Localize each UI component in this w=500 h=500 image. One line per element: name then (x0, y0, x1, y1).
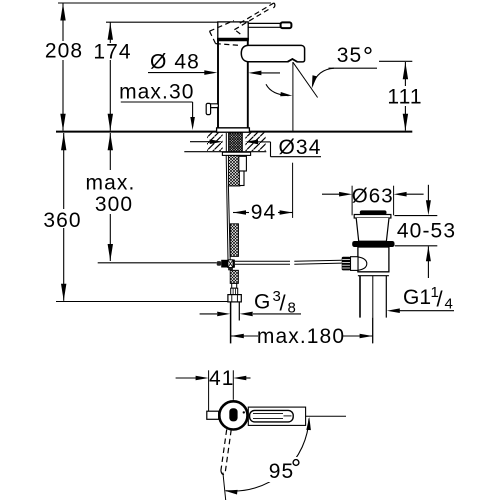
dimension 94 arrows (233, 210, 246, 215)
coupler lower bit (228, 268, 233, 271)
svg-text:174: 174 (93, 41, 131, 64)
dimension Ø63 arrows (322, 193, 340, 195)
G3/8 nut (228, 295, 241, 302)
stream axis vertical line (292, 62, 294, 131)
40-53 bottom ref line (395, 245, 438, 247)
svg-text:4: 4 (445, 296, 453, 313)
rod housing bulge (358, 257, 367, 270)
rod coupler (217, 261, 222, 266)
dimension Ø34 left (190, 141, 213, 143)
rod attachment block (351, 257, 359, 271)
reference line at G3/8 nut (360 bottom) (56, 301, 228, 303)
svg-text:300: 300 (95, 193, 133, 216)
countertop surface line (56, 131, 412, 133)
dimension Ø48 left arrow (204, 70, 217, 75)
swivel arc arrow (266, 84, 289, 95)
spout axis extension line (292, 163, 294, 218)
svg-text:41: 41 (209, 367, 235, 390)
dimension max.180 line (231, 335, 258, 337)
rod guide bracket (239, 156, 247, 171)
dimension Ø34 right (245, 140, 258, 145)
plan lever stub (207, 411, 219, 419)
drain seal ring (352, 241, 394, 247)
dimension 174 arrows (108, 23, 113, 40)
reference line lever top (174) (106, 21, 218, 23)
plan spout axis line (306, 415, 346, 417)
plan small dot (243, 411, 245, 413)
connection tube (230, 302, 232, 344)
svg-text:Ø 48: Ø 48 (150, 51, 200, 74)
pop-up rod knob on body (207, 104, 219, 108)
braided hose middle (230, 224, 238, 257)
svg-text:111: 111 (387, 86, 422, 109)
35deg leader underline (329, 67, 378, 69)
dimension 111 arrows (403, 62, 408, 79)
horizontal pop-up rod (235, 260, 290, 262)
40-53 top ref line (395, 215, 438, 217)
counter hatch right (245, 133, 265, 151)
40-53 arrows (426, 200, 431, 215)
svg-text:35: 35 (337, 44, 363, 67)
aerator notch (288, 59, 298, 62)
svg-text:Ø34: Ø34 (279, 136, 322, 159)
svg-text:max.180: max.180 (257, 325, 345, 348)
41 extension lines (208, 370, 210, 412)
spout (241, 45, 304, 62)
mounting washer (222, 152, 250, 155)
dimension 111 line (404, 62, 406, 86)
dimension max.300 line (109, 133, 111, 170)
svg-text:208: 208 (45, 40, 83, 63)
braided hose below coupler (230, 270, 238, 283)
svg-text:360: 360 (43, 209, 81, 232)
plan dashed lever (221, 430, 227, 471)
G1 1/4 leader (387, 308, 400, 313)
drain plug cap (360, 210, 387, 214)
35deg leader arrow (312, 75, 317, 88)
dimension Ø48 leader (148, 72, 210, 74)
water stream 35deg line (293, 62, 318, 97)
dimension 41 arrows (176, 377, 196, 379)
plan lever extension line (223, 473, 226, 500)
dimension 360 line (63, 133, 65, 209)
svg-text:94: 94 (251, 201, 277, 224)
faucet body circle (219, 401, 247, 429)
pop-up rod left line (226, 156, 228, 260)
leader max.30 (121, 101, 193, 103)
svg-text:max.: max. (86, 172, 136, 195)
35deg leader curve (313, 68, 334, 85)
lever handle (248, 22, 282, 24)
40-53 dim lines (427, 185, 429, 202)
dashed raised lever outline (210, 21, 234, 32)
G3/8 arrows (200, 313, 217, 315)
svg-text:max.30: max.30 (119, 81, 194, 104)
base flange (217, 128, 250, 132)
svg-text:/: / (280, 291, 287, 316)
max.180 right extension (372, 318, 374, 344)
pop-up rod in counter hole (225, 133, 227, 152)
drain shoulder lines (358, 271, 389, 273)
plan spout outer housing (248, 407, 305, 425)
dimension 174 line (109, 22, 111, 43)
drain tailpipe (359, 276, 361, 318)
reference line at pop-up rod (max.300 bottom) (98, 262, 217, 264)
pop-up rod right line (228, 186, 230, 260)
Ø63 extension lines (351, 186, 353, 216)
dimension 208 line (62, 3, 64, 41)
counter hatch left (207, 133, 223, 151)
svg-text:G1: G1 (403, 286, 431, 309)
hose ferrule (232, 283, 237, 288)
dimension 111 top ref (379, 60, 412, 62)
95deg arc (226, 418, 309, 491)
plan spout inner body (250, 410, 294, 422)
drain body (358, 247, 389, 272)
svg-text:8: 8 (288, 300, 296, 317)
dimension 208 arrows (60, 4, 65, 21)
cartridge housing (218, 22, 248, 39)
svg-text:Ø63: Ø63 (352, 184, 394, 207)
svg-text:G: G (254, 291, 270, 314)
dimension max.300 arrows (108, 133, 113, 150)
dimension 94 line (233, 212, 249, 214)
label 95deg (265, 457, 306, 482)
plan lever knob (229, 408, 237, 421)
rod knurled knob (342, 257, 351, 271)
svg-text:40-53: 40-53 (397, 219, 456, 242)
95deg arc arrows (306, 417, 311, 430)
faucet body (218, 39, 248, 128)
svg-text:95: 95 (269, 460, 295, 483)
plan spout detail lines (253, 412, 283, 414)
drain funnel (356, 218, 389, 241)
cartridge bottom thick band (217, 38, 249, 42)
braided hose upper (228, 155, 240, 186)
threaded shank in counter (229, 133, 243, 153)
dimension max.180 arrows (231, 334, 244, 339)
dimension 360 arrows (61, 133, 66, 150)
svg-text:/: / (437, 287, 444, 312)
countertop underside line (184, 151, 266, 153)
drain flange rim (354, 215, 391, 219)
leader max.30 arrow (190, 117, 195, 130)
top reference line (raised lever height, 208) (58, 2, 271, 4)
dimension Ø48 right arrow (248, 71, 261, 76)
